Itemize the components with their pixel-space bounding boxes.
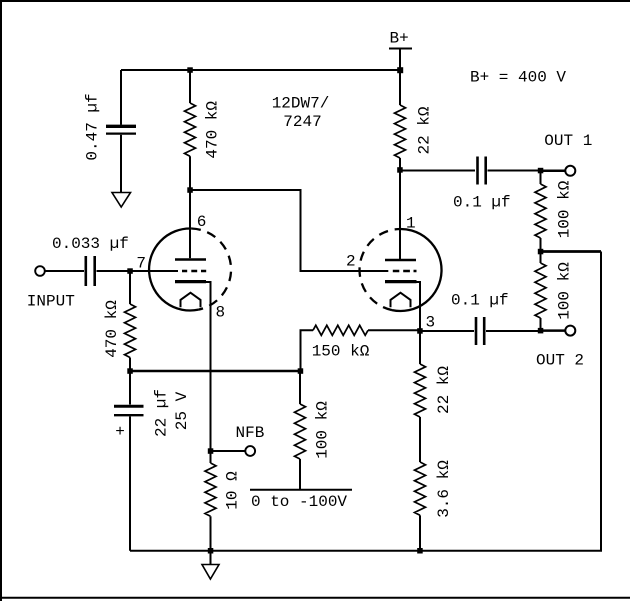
INPUT label	[27, 293, 75, 311]
svg-text:3.6 kΩ: 3.6 kΩ	[435, 460, 453, 518]
resistor R9 label 22 kOhm	[435, 366, 453, 414]
wire C5 to OUT2	[486, 330, 541, 332]
junction bottom ground node	[208, 548, 214, 554]
resistor R7 label 100 kOhm	[555, 180, 573, 238]
triode V1b envelope dashed arc	[360, 229, 395, 310]
OUT 2 terminal	[565, 326, 575, 336]
triode V1a envelope dashed arc	[191, 229, 231, 310]
bias terminal bar	[250, 489, 352, 491]
svg-text:1: 1	[406, 215, 416, 233]
capacitor C2 0.033uf	[86, 256, 95, 286]
junction feedback node	[538, 249, 544, 255]
svg-text:0.033 µf: 0.033 µf	[52, 235, 129, 253]
svg-text:22 kΩ: 22 kΩ	[416, 106, 434, 154]
tube type label 12DW7/7247	[272, 95, 330, 132]
svg-text:6: 6	[197, 213, 207, 231]
svg-text:25 V: 25 V	[173, 391, 191, 430]
svg-text:22 µf: 22 µf	[153, 389, 171, 437]
capacitor C4 0.1uf	[478, 157, 486, 185]
svg-text:0.1 µf: 0.1 µf	[451, 292, 509, 310]
resistor R5 100k	[295, 404, 306, 459]
junction right bias	[298, 368, 304, 374]
junction bottom right node	[417, 548, 423, 554]
pin 3 label	[426, 314, 436, 332]
wire feedback to right rail	[541, 250, 602, 253]
svg-text:NFB: NFB	[236, 424, 265, 442]
svg-text:10 Ω: 10 Ω	[223, 471, 241, 510]
svg-text:INPUT: INPUT	[27, 293, 75, 311]
resistor R9 22k leads	[419, 331, 421, 462]
resistor R1 470k plate load leads	[189, 70, 191, 190]
triode V1b grid dashes	[393, 270, 417, 272]
resistor R8 100k leads	[540, 252, 542, 331]
wire input to C2	[45, 270, 84, 272]
capacitor C3 label 22uf 25V	[153, 389, 191, 437]
ground G2	[202, 565, 219, 580]
svg-text:B+: B+	[390, 30, 409, 48]
svg-text:B+ = 400 V: B+ = 400 V	[470, 69, 566, 87]
pin 2 label	[346, 253, 356, 271]
wire top rail	[121, 69, 400, 71]
triode V1a plate	[175, 190, 206, 260]
svg-text:150 kΩ: 150 kΩ	[312, 343, 370, 361]
resistor R4 label 150 kOhm	[312, 343, 370, 361]
junction B+	[397, 67, 403, 73]
wire C1 to ground	[120, 135, 122, 193]
wire cathode V2 down	[417, 282, 421, 331]
resistor R4 150k	[313, 325, 368, 335]
svg-text:0.47 µf: 0.47 µf	[83, 93, 101, 160]
resistor R8 label 100 kOhm	[555, 262, 573, 320]
junction plate V2 node	[397, 167, 403, 173]
capacitor C3 22uf leads	[129, 371, 131, 551]
triode V1a grid dashes	[182, 270, 206, 272]
svg-text:7: 7	[136, 255, 146, 273]
junction node plate V1	[187, 187, 193, 193]
resistor R5 100k bias leads	[299, 371, 301, 490]
NFB terminal	[245, 446, 255, 456]
triode V1a cathode	[175, 280, 206, 283]
B+ value label	[470, 69, 566, 87]
wire OUT1 stub	[541, 170, 566, 173]
triode V1b cathode	[385, 280, 417, 283]
wire plate V2 to C4	[400, 170, 475, 172]
svg-text:22 kΩ: 22 kΩ	[435, 366, 453, 414]
triode V1b envelope solid arc	[392, 229, 442, 311]
junction NFB node	[208, 448, 214, 454]
pin 1 label	[406, 215, 416, 233]
capacitor C5 label	[451, 292, 509, 310]
capacitor C3 plates	[114, 406, 144, 415]
capacitor C5 0.1uf	[476, 317, 484, 345]
wire OUT2 stub	[541, 329, 566, 332]
resistor R2 470k grid leak leads	[129, 271, 131, 371]
triode V1a envelope solid arc	[149, 228, 198, 310]
resistor R8 100k	[535, 263, 546, 318]
capacitor C1 plates	[106, 126, 136, 133]
svg-text:3: 3	[426, 314, 436, 332]
resistor R3 label 10 Ohm	[223, 471, 241, 510]
B+ terminal	[389, 30, 412, 71]
pin 6 label	[197, 213, 207, 231]
junction left bias	[127, 368, 133, 374]
resistor R9 22k	[415, 364, 426, 417]
resistor R4 150k leads	[301, 330, 421, 371]
resistor R10 label 3.6 kOhm	[435, 460, 453, 518]
capacitor C1 0.47uf lead	[120, 70, 122, 125]
resistor R1 470k	[185, 103, 196, 156]
capacitor C4 label	[453, 194, 511, 212]
junction grid V1 node	[127, 268, 133, 274]
wire cathode V1 down	[206, 282, 211, 451]
resistor R1 label 470 kOhm	[204, 101, 222, 159]
capacitor C1 label 0.47 uf	[83, 93, 101, 160]
resistor R7 100k leads	[540, 171, 542, 252]
resistor R10 3.6k leads	[419, 515, 421, 551]
resistor R3 10 Ohm leads	[210, 451, 212, 551]
pin 8 label	[216, 304, 226, 322]
svg-text:0.1 µf: 0.1 µf	[453, 194, 511, 212]
resistor R2 label 470 kOhm	[103, 300, 121, 358]
bias label 0 to -100V	[251, 493, 347, 511]
OUT 1 terminal	[565, 166, 575, 176]
resistor R7 100k	[535, 184, 546, 238]
svg-text:100 kΩ: 100 kΩ	[555, 262, 573, 320]
resistor R2 470k	[125, 304, 136, 358]
wire C2 to grid V1	[97, 270, 179, 272]
svg-text:470 kΩ: 470 kΩ	[103, 300, 121, 358]
wire node3 to C5	[420, 330, 474, 332]
svg-text:7247: 7247	[283, 113, 321, 131]
junction OUT2 node	[538, 328, 544, 334]
OUT 2 label	[536, 352, 584, 370]
wire NFB stub	[211, 450, 246, 452]
wire cathode bias rail	[130, 370, 301, 373]
resistor R6 label 22 kOhm	[416, 106, 434, 154]
svg-text:100 kΩ: 100 kΩ	[555, 180, 573, 238]
junction node 3	[417, 328, 423, 334]
triode V1b heater chevron	[391, 293, 411, 308]
svg-text:OUT 2: OUT 2	[536, 352, 584, 370]
junction OUT1 node	[538, 168, 544, 174]
svg-text:100 kΩ: 100 kΩ	[314, 401, 332, 459]
resistor R6 22k	[395, 105, 406, 158]
svg-text:2: 2	[346, 253, 356, 271]
pin 7 label	[136, 255, 146, 273]
capacitor C2 label	[52, 235, 129, 253]
triode V1b plate	[385, 170, 416, 260]
triode V1a heater chevron	[181, 293, 201, 308]
svg-text:12DW7/: 12DW7/	[272, 95, 330, 113]
resistor R6 22k plate load leads	[399, 70, 401, 170]
wire V1 plate to V2 grid	[190, 190, 388, 271]
resistor R3 10 Ohm	[205, 463, 216, 516]
wire C4 to OUT1	[488, 170, 541, 172]
svg-text:470 kΩ: 470 kΩ	[204, 101, 222, 159]
svg-text:OUT 1: OUT 1	[544, 132, 592, 150]
capacitor C3 polarity plus	[115, 423, 125, 441]
svg-text:8: 8	[216, 304, 226, 322]
svg-text:0 to -100V: 0 to -100V	[251, 493, 347, 511]
OUT 1 label	[544, 132, 592, 150]
wire bottom rail	[130, 252, 601, 551]
ground G1	[112, 193, 131, 208]
junction top-left	[187, 67, 193, 73]
resistor R5 label 100 kOhm	[314, 401, 332, 459]
INPUT terminal	[35, 266, 45, 276]
NFB label	[236, 424, 265, 442]
wire ground stub	[210, 551, 212, 565]
svg-text:+: +	[115, 423, 125, 441]
resistor R10 3.6k	[415, 462, 426, 515]
